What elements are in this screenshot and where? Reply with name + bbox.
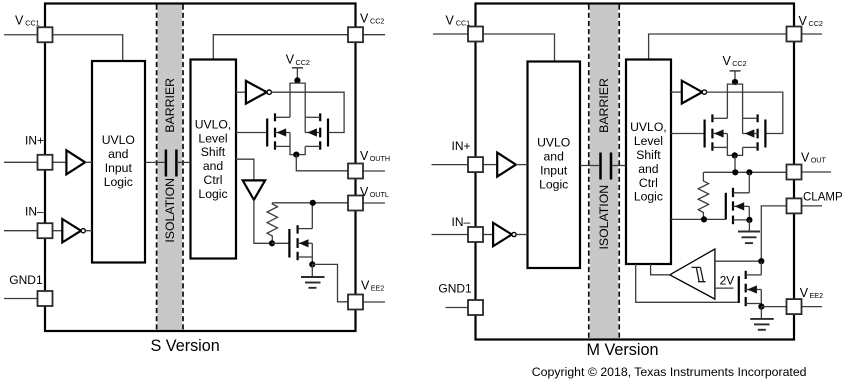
wire VOUTL lead — [363, 202, 385, 204]
svg-text:Logic: Logic — [198, 187, 227, 201]
outer box S version — [45, 4, 356, 332]
pin VCC2r — [787, 27, 802, 42]
pin VCC1 — [38, 27, 53, 42]
isolation barrier bar (left) — [157, 5, 183, 331]
svg-text:UVLO,: UVLO, — [630, 120, 667, 134]
capacitor isolation (left) — [145, 150, 191, 177]
node source dot — [309, 261, 315, 267]
node gate junction dot — [269, 240, 275, 246]
wire inverter out to right FET gate — [271, 92, 344, 132]
wire VEE2r lead — [802, 306, 823, 308]
wire VCC2r lead — [802, 33, 823, 35]
svg-text:Logic: Logic — [539, 178, 568, 192]
supply T-bar VCC2 (right) — [730, 71, 741, 82]
wire VOUTH lead — [363, 170, 385, 172]
label VEE2 — [361, 278, 384, 292]
svg-text:EE2: EE2 — [810, 291, 824, 300]
svg-text:and: and — [203, 159, 223, 173]
pin IN+r — [468, 157, 483, 172]
wire IN- lead — [4, 230, 38, 232]
wire VCC1 to input block — [53, 35, 123, 61]
label VCC1 — [15, 13, 40, 27]
svg-text:GND1: GND1 — [9, 273, 43, 287]
inverter IN-r — [483, 223, 528, 246]
node totem output dot — [293, 152, 299, 158]
transistor Q1r (left of totem) — [671, 114, 727, 150]
label VCC2r pin — [799, 14, 823, 28]
inverter U2 (top output buffer) — [236, 81, 271, 104]
svg-text:Ctrl: Ctrl — [639, 176, 658, 190]
node drain dot on VOUTL rail — [310, 200, 316, 206]
wire VCC1r lead — [433, 33, 468, 35]
pin VEE2r — [787, 299, 802, 314]
wire source to VEE2 — [312, 264, 348, 301]
transistor Q2r (right of totem) — [743, 114, 766, 150]
label VEE2r — [800, 286, 823, 300]
svg-text:V: V — [360, 185, 369, 199]
svg-text:GND1: GND1 — [438, 282, 472, 296]
hysteresis symbol — [692, 267, 706, 281]
svg-text:BARRIER: BARRIER — [597, 78, 611, 133]
svg-text:BARRIER: BARRIER — [163, 78, 177, 133]
transistor Q3 (pull-down) — [272, 203, 312, 265]
svg-text:Level: Level — [634, 134, 663, 148]
pin VCC1r — [468, 27, 483, 42]
isolation barrier bar (right) — [589, 5, 619, 340]
svg-text:OUT: OUT — [811, 156, 827, 165]
svg-text:CLAMP: CLAMP — [803, 191, 843, 203]
label VOUTL — [360, 185, 389, 199]
svg-text:V: V — [801, 151, 810, 165]
transistor Q4 (clamp sense) — [726, 172, 750, 224]
pin CLAMP — [787, 198, 802, 213]
svg-text:Shift: Shift — [636, 148, 661, 162]
svg-text:CC2: CC2 — [809, 19, 823, 28]
wire VOUT rail — [703, 171, 786, 173]
buffer IN+ — [53, 150, 93, 174]
node sense gate dot — [701, 216, 707, 222]
svg-text:V: V — [360, 11, 369, 25]
svg-text:UVLO: UVLO — [537, 136, 570, 150]
wire IN+r lead — [432, 164, 469, 166]
resistor R2 — [698, 172, 708, 219]
label VCC2 internal supply (right) — [723, 54, 747, 68]
transistor Q5 (miller clamp) — [739, 261, 762, 306]
node clamp drain dot — [758, 258, 764, 264]
wire top rail to drains (right) — [727, 84, 742, 118]
capacitor isolation (right) — [580, 153, 626, 180]
pin IN-r — [468, 227, 483, 242]
svg-text:V: V — [361, 278, 370, 292]
wire comparator output to logic — [651, 264, 670, 275]
node clamp source dot — [758, 304, 764, 310]
svg-text:EE2: EE2 — [371, 283, 385, 292]
wire VOUTL rail — [272, 202, 348, 204]
transistor Q2 (right of totem) — [305, 113, 328, 149]
supply T-bar VCC2 — [292, 68, 303, 81]
pin GND1r — [468, 300, 483, 315]
svg-text:V: V — [15, 13, 24, 27]
svg-text:Copyright © 2018, Texas Instru: Copyright © 2018, Texas Instruments Inco… — [532, 365, 807, 379]
wire GND1 lead — [4, 298, 38, 300]
svg-text:V: V — [799, 14, 808, 28]
svg-text:M Version: M Version — [587, 341, 659, 359]
block UVLO and Input Logic (right) — [528, 62, 581, 269]
pin VCC2 — [348, 27, 363, 42]
wire GND1r lead — [446, 307, 469, 309]
wire output node down to VOUT rail — [734, 155, 736, 172]
wire VCC1r to input block — [483, 34, 555, 62]
svg-text:2V: 2V — [720, 273, 735, 287]
svg-text:and: and — [638, 162, 658, 176]
svg-text:UVLO,: UVLO, — [195, 117, 232, 131]
svg-text:OUTL: OUTL — [370, 190, 389, 199]
svg-text:and: and — [108, 147, 128, 161]
svg-text:Input: Input — [540, 164, 568, 178]
svg-text:V: V — [723, 54, 732, 68]
svg-text:IN–: IN– — [452, 215, 471, 229]
svg-text:CC1: CC1 — [25, 18, 39, 27]
inverter U2r (top output buffer right) — [671, 81, 707, 104]
svg-text:V: V — [446, 13, 455, 27]
pin VOUTL — [348, 196, 363, 211]
pin IN- — [38, 223, 53, 238]
label VCC2 pin — [360, 11, 384, 25]
wire output node to VOUTH — [296, 155, 348, 171]
wire VCC2 lead — [363, 34, 385, 36]
ground G1 — [301, 264, 325, 287]
svg-text:CC2: CC2 — [370, 16, 384, 25]
buffer U3 (down triangle) — [236, 159, 272, 243]
label VCC1r — [446, 13, 471, 27]
node top rail dot — [294, 77, 300, 83]
block UVLO and Input Logic — [92, 61, 145, 263]
label VOUTH — [360, 149, 390, 163]
svg-text:Logic: Logic — [104, 175, 133, 189]
label VOUT — [801, 151, 826, 165]
wire IN-r lead — [432, 234, 469, 236]
wire inverter out to right FET gate (right) — [707, 92, 783, 133]
svg-text:V: V — [286, 53, 295, 67]
wire comparator input from clamp node — [715, 260, 761, 262]
wire 2V reference stub — [715, 287, 734, 289]
buffer IN+r — [483, 153, 528, 177]
block UVLO Level Shift and Ctrl Logic — [191, 60, 237, 259]
svg-text:CC2: CC2 — [296, 58, 310, 67]
node VOUT rail dot A — [732, 169, 738, 175]
svg-text:OUTH: OUTH — [370, 154, 390, 163]
wire clamp source to VEE2r — [761, 306, 787, 308]
svg-text:V: V — [800, 286, 809, 300]
label VCC2 internal supply — [286, 53, 310, 67]
wire VCC2 to logic block — [213, 35, 348, 60]
svg-text:Shift: Shift — [201, 145, 226, 159]
comparator U4 — [670, 249, 715, 299]
outer box M version — [476, 4, 795, 340]
block UVLO Level Shift and Ctrl Logic (right) — [626, 60, 671, 265]
svg-text:Ctrl: Ctrl — [204, 173, 223, 187]
inverter IN- — [53, 219, 93, 242]
svg-text:Level: Level — [198, 131, 227, 145]
wire clamp gate from logic — [636, 264, 739, 302]
wire sense gate from logic — [671, 218, 726, 220]
svg-text:ISOLATION: ISOLATION — [163, 178, 177, 243]
pin GND1 — [38, 291, 53, 306]
svg-text:V: V — [360, 149, 369, 163]
wire top rail to drains — [290, 83, 305, 117]
wire VCC2r to logic block — [649, 34, 787, 60]
svg-text:CC2: CC2 — [732, 59, 746, 68]
pin VOUTH — [348, 164, 363, 179]
svg-text:ISOLATION: ISOLATION — [597, 185, 611, 250]
node sense source dot — [746, 217, 752, 223]
svg-text:Input: Input — [105, 161, 133, 175]
svg-text:UVLO: UVLO — [102, 133, 135, 147]
svg-text:CC1: CC1 — [456, 18, 470, 27]
node VOUT rail dot B — [746, 169, 752, 175]
wire VCC1 lead — [4, 34, 38, 36]
svg-text:S Version: S Version — [151, 337, 220, 355]
svg-text:IN–: IN– — [25, 205, 44, 219]
ground G3 — [750, 307, 774, 330]
pin VEE2 — [348, 295, 363, 310]
transistor Q1 (left of totem) — [236, 113, 290, 149]
svg-text:and: and — [544, 150, 564, 164]
pin IN+ — [38, 155, 53, 170]
node totem output dot (right) — [732, 152, 738, 158]
svg-text:IN+: IN+ — [452, 139, 471, 153]
wire IN+ lead — [4, 161, 38, 163]
wire CLAMP lead — [802, 205, 823, 207]
pin VOUT — [787, 165, 802, 180]
resistor R1 — [267, 203, 277, 244]
wire totem sources to output node (right) — [727, 147, 742, 155]
wire totem sources to output node — [290, 146, 305, 154]
wire VOUT lead — [802, 171, 832, 173]
node top rail dot (right) — [732, 79, 738, 85]
svg-text:IN+: IN+ — [25, 134, 44, 148]
wire VEE2 lead — [363, 301, 385, 303]
svg-text:Logic: Logic — [634, 190, 663, 204]
wire CLAMP to clamp FET drain — [761, 206, 786, 261]
ground G2 — [738, 220, 760, 243]
